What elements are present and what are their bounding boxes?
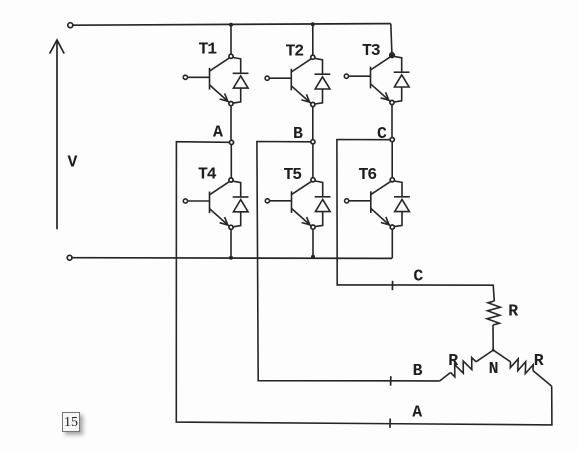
- phase B wire: node B around to load: [257, 142, 440, 381]
- svg-text:R: R: [448, 351, 458, 370]
- transistor T5: [265, 181, 311, 226]
- node B: [311, 140, 315, 144]
- node C: [390, 138, 394, 142]
- svg-text:T5: T5: [284, 165, 303, 184]
- junction dot leg1 / top bus: [229, 23, 233, 27]
- wire T6 emitter to bottom bus: [391, 229, 393, 258]
- wire T2 emitter to node B: [312, 107, 314, 140]
- wire resistor C to star point N: [492, 325, 494, 350]
- tick mark on A wire: [389, 419, 391, 428]
- T4 emitter node: [229, 225, 233, 229]
- anti-parallel diode of T2: [315, 58, 331, 104]
- anti-parallel diode of T3: [394, 56, 410, 102]
- svg-text:C: C: [413, 267, 423, 286]
- wire star to resistor B: [476, 350, 493, 362]
- anti-parallel diode of T1: [233, 58, 249, 104]
- wire top bus corner to T3: [391, 24, 392, 54]
- svg-text:N: N: [489, 359, 498, 378]
- positive supply terminal: [68, 23, 73, 28]
- anti-parallel diode of T6: [394, 181, 410, 227]
- T4 collector node: [229, 178, 233, 182]
- junction dot leg2 / top bus: [311, 22, 315, 26]
- page number badge 15: [62, 412, 80, 432]
- svg-text:T4: T4: [198, 165, 217, 184]
- svg-text:T2: T2: [286, 42, 304, 61]
- svg-text:B: B: [293, 124, 303, 143]
- T3 top junction dot: [390, 53, 394, 57]
- svg-text:R: R: [508, 302, 518, 321]
- phase A wire: node A around to load: [176, 142, 552, 425]
- T3 collector node: [390, 53, 395, 58]
- svg-text:R: R: [534, 351, 544, 370]
- transistor T4: [183, 182, 229, 227]
- T3 emitter node: [390, 100, 394, 104]
- junction dot leg1 / bottom bus: [229, 256, 233, 260]
- T6 collector node: [390, 178, 394, 182]
- wire T3 emitter to node C: [391, 105, 393, 138]
- T2 emitter node: [311, 102, 315, 106]
- wire star to resistor A: [493, 350, 510, 362]
- star point N: [492, 349, 495, 352]
- anti-parallel diode of T5: [315, 181, 331, 227]
- svg-text:T6: T6: [359, 165, 377, 184]
- bottom DC bus (negative rail): [70, 257, 392, 260]
- negative supply terminal: [67, 255, 72, 260]
- svg-text:T1: T1: [199, 40, 218, 59]
- anti-parallel diode of T4: [233, 181, 249, 227]
- T5 emitter node: [311, 225, 315, 229]
- T5 collector node: [311, 178, 315, 182]
- svg-text:B: B: [413, 361, 423, 380]
- node A: [229, 140, 233, 144]
- wire T4 emitter to bottom bus: [230, 229, 232, 257]
- wire top bus to T2: [312, 24, 314, 55]
- junction dot leg2 / bottom bus: [311, 255, 315, 259]
- top DC bus (positive rail): [71, 24, 391, 26]
- T2 collector node: [311, 55, 315, 59]
- tick mark on C wire: [391, 281, 393, 290]
- T6 emitter node: [390, 225, 394, 229]
- supply voltage arrow V: [50, 40, 65, 229]
- svg-text:A: A: [412, 403, 422, 422]
- wire node A to T4: [230, 145, 232, 179]
- wire top bus to T1: [230, 25, 232, 55]
- T1 collector node: [229, 54, 233, 58]
- transistor T6: [345, 181, 391, 226]
- transistor T2: [265, 59, 311, 104]
- wire resistor B to phase B line: [440, 373, 451, 381]
- transistor T3: [344, 57, 390, 102]
- phase C wire: node C around to load: [337, 140, 494, 302]
- tick mark on B wire: [390, 376, 392, 386]
- resistor R (phase B, diagonal): [451, 358, 477, 377]
- wire resistor A to phase A line: [533, 371, 552, 387]
- resistor R (phase A, diagonal): [510, 359, 533, 374]
- wire node B to T5: [312, 144, 314, 178]
- svg-text:A: A: [213, 123, 223, 142]
- wire T5 emitter to bottom bus: [312, 229, 314, 257]
- resistor R (phase C, vertical): [487, 301, 500, 325]
- svg-text:T3: T3: [362, 41, 381, 60]
- transistor T1: [183, 58, 229, 103]
- wire T1 emitter to node A: [230, 106, 232, 141]
- T1 emitter node: [229, 102, 233, 106]
- wire node C to T6: [391, 142, 393, 178]
- svg-text:V: V: [68, 153, 78, 172]
